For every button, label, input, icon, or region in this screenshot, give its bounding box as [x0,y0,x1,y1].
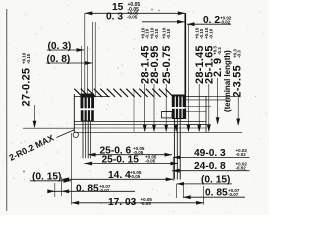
left bottom stub y128.2 [23,127,74,129]
0.85R arrow [183,195,191,199]
0.85L arrows [62,189,70,193]
wall thick line [184,13,186,119]
0.2 extension stub [187,24,189,131]
hatch band [74,89,172,97]
svg-text:0. 85: 0. 85 [205,188,228,199]
svg-text:-0.10: -0.10 [154,28,159,39]
svg-text:2-R0.2 MAX: 2-R0.2 MAX [7,133,55,163]
seating line y132.3 [74,131,242,133]
17.03 arrows [72,201,80,205]
svg-text:49-0. 3: 49-0. 3 [194,148,226,159]
right dim 0.85R line [183,196,245,198]
svg-text:0. 3: 0. 3 [106,12,123,23]
dimension 0.3 top line [142,21,185,23]
svg-text:(0. 15): (0. 15) [32,171,61,182]
dim line col 217.6 [217,78,219,124]
dim line col 199.2 [198,84,200,131]
right dim (0.15) line [177,183,233,185]
rotated vertical texts [21,27,244,112]
svg-text:0. 2: 0. 2 [203,15,220,26]
svg-text:24-0. 8: 24-0. 8 [194,161,226,172]
R0.2 circle [73,132,78,137]
dim line col 144.7 [144,84,146,131]
bottom left (0.15) line [30,180,71,182]
right ext y99.9 [186,99,231,101]
extension line x84.8 [84,13,86,96]
14.4 arrows [62,177,70,181]
svg-text:14. 4: 14. 4 [108,170,131,181]
bottom dim 0.85L line [48,190,135,192]
(0.3) underline leader [47,49,84,51]
dim line col 166.2 [165,84,167,131]
extension line x92.4 [91,22,93,97]
mating tab rect [162,112,173,118]
0.3 top arrow [177,20,185,24]
25-0.15 arrows [85,162,93,166]
dim line col 154 [153,84,155,131]
25-0.6 arrows [88,153,96,157]
bottom dim 14.4 line [62,178,174,180]
shelf line y124.6 [74,124,206,126]
texts horizontal [32,2,247,208]
right dim 49-0.3 line [173,156,250,158]
(0.3) arrow [77,48,85,52]
svg-text:-0.10: -0.10 [166,28,171,39]
svg-text:(0. 8): (0. 8) [47,54,71,65]
svg-text:-0.3: -0.3 [217,47,222,55]
svg-text:-0.07: -0.07 [99,188,110,193]
body right edge [205,96,207,132]
down arrows on seating line [143,125,147,133]
svg-text:-0.05: -0.05 [127,15,138,20]
scan noise speckles [2,3,267,212]
extension line x87.6 [87,46,89,97]
svg-text:-0.02: -0.02 [236,165,247,170]
27-0.25 dim line [34,105,36,127]
R0.2 leader [57,130,75,138]
15 arrows [85,11,93,15]
extension line x95.2 [94,22,96,97]
bottom dim 25-0.6 line [88,154,172,156]
svg-text:25-0.75: 25-0.75 [161,45,173,84]
dim line col 208.8 [208,84,210,131]
(0.8) underline leader [46,62,93,64]
24-0.8 arrow [172,169,180,173]
right legs [173,119,175,180]
left contact stack [81,94,95,122]
svg-text:28-0.95: 28-0.95 [149,45,161,84]
bottom ext verticals [54,183,56,197]
ext y96.4 to 2-3.55 [206,95,238,97]
arrowheads [33,11,241,204]
svg-text:-0.02: -0.02 [236,152,247,157]
svg-text:2. 9: 2. 9 [212,58,224,77]
right ext y124.7 [186,124,211,126]
tab top line y111.5 [162,111,207,113]
(0.15)R arrow [177,182,185,186]
svg-text:-0.07: -0.07 [228,192,239,197]
27-0.25 down arrow [33,121,37,129]
dim line col 237.4 [237,96,239,124]
bottom dim 25-0.15 line [85,163,179,165]
svg-text:-0.10: -0.10 [26,53,31,64]
svg-text:17. 03: 17. 03 [108,197,137,208]
dimension 0.2 underline [187,23,231,25]
svg-text:27-0.25: 27-0.25 [21,68,33,107]
body left edge [73,94,75,132]
right ext y106.5 [186,106,211,108]
bottom dim 17.03 line [72,202,204,204]
shelf line y121.4 [74,120,206,122]
right dim 24-0.8 line [172,170,250,172]
svg-text:25-0. 15: 25-0. 15 [102,154,140,165]
svg-text:0. 85: 0. 85 [76,184,99,195]
body line y128 [74,127,206,129]
body top line [74,96,110,98]
svg-text:-0.02: -0.02 [220,20,231,25]
dimension 15 line [85,12,186,14]
right contact stack [172,95,186,120]
centerline [133,89,135,132]
svg-text:(0. 3): (0. 3) [48,41,72,52]
svg-text:2-3.55: 2-3.55 [232,65,244,97]
frame left edge [6,9,8,211]
(0.15)L arrow [64,179,72,183]
svg-text:-0.05: -0.05 [141,201,152,206]
left legs [82,122,84,159]
svg-text:(0. 15): (0. 15) [201,174,230,185]
extension line x81.7 [81,46,83,97]
svg-text:-0.3: -0.3 [237,50,242,58]
49-0.3 arrow [173,156,181,160]
0.2 arrow [187,22,195,26]
svg-text:-0.10: -0.10 [208,28,213,39]
(0.8) arrow [85,61,93,65]
body top line right [186,95,206,97]
